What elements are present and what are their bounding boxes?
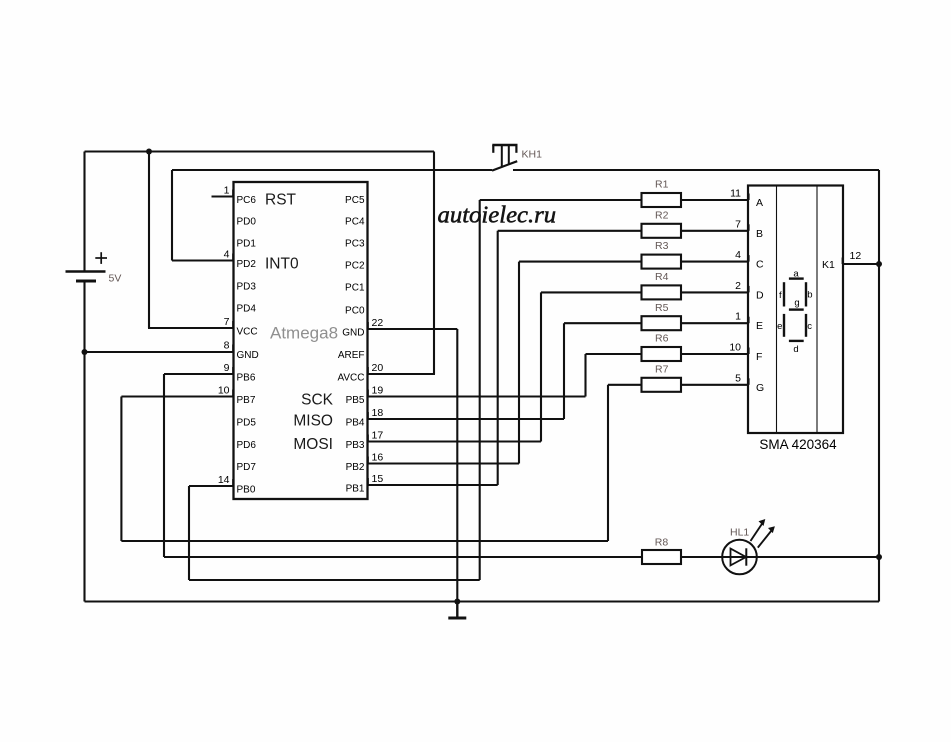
svg-text:PB3: PB3 [346, 440, 365, 451]
svg-text:PB6: PB6 [237, 372, 256, 383]
svg-text:B: B [756, 228, 763, 240]
IC U1 left pin PD7 [237, 462, 257, 473]
node pin12 junction [876, 261, 882, 267]
svg-text:16: 16 [372, 452, 384, 464]
svg-text:G: G [756, 382, 764, 394]
wire R7 to display pin 5 [681, 384, 748, 386]
svg-text:PC2: PC2 [345, 260, 365, 271]
svg-text:C: C [756, 259, 764, 271]
svg-text:K1: K1 [822, 259, 835, 271]
node +5V junction [146, 149, 152, 155]
svg-text:PC5: PC5 [345, 195, 365, 206]
resistor R2 [642, 209, 682, 237]
wire right vertical rail [878, 170, 880, 602]
wire PC6 pin 1 stub [212, 195, 234, 197]
svg-text:PD6: PD6 [237, 440, 257, 451]
svg-text:PD3: PD3 [237, 281, 257, 292]
resistor R6 [642, 333, 682, 361]
svg-text:PB2: PB2 [346, 462, 365, 473]
battery GB1 5V [66, 252, 122, 284]
svg-text:15: 15 [372, 473, 384, 485]
svg-text:R5: R5 [655, 302, 669, 314]
svg-text:PD2: PD2 [237, 259, 257, 270]
IC U1 right pin PC0 [345, 305, 365, 316]
wire R6 left lead [586, 353, 642, 355]
wire VCC drop [148, 152, 150, 329]
resistor R4 [642, 271, 682, 299]
IC U1 right pin AREF [338, 350, 365, 361]
IC U1 right pin PB2 [346, 452, 384, 473]
svg-text:KH1: KH1 [522, 149, 543, 161]
svg-text:R2: R2 [655, 209, 669, 221]
IC U1 right pin PC2 [345, 260, 365, 271]
svg-text:VCC: VCC [237, 326, 258, 337]
svg-text:R6: R6 [655, 333, 669, 345]
wire bottom ground rail [85, 600, 880, 602]
IC U1 right pin PB1 [346, 473, 384, 494]
svg-text:7: 7 [224, 316, 230, 328]
IC U1 right pin PB3 [346, 430, 384, 451]
wire PB2 pin16 right [368, 462, 520, 464]
svg-text:20: 20 [372, 362, 384, 374]
node GND pin8 junction [82, 349, 88, 355]
wire PB1 pin15 right [368, 484, 498, 486]
wire PB5 pin19 right [368, 395, 586, 397]
resistor R5 [642, 302, 682, 330]
svg-text:PC1: PC1 [345, 282, 365, 293]
svg-text:PD1: PD1 [237, 238, 257, 249]
IC U1 right pin AVCC [337, 362, 383, 383]
wire button to right rail [513, 169, 879, 171]
IC U1 right pin GND [342, 317, 383, 338]
svg-text:MISO: MISO [293, 413, 333, 430]
IC U1 right pin PB4 [346, 407, 384, 428]
svg-text:e: e [777, 321, 782, 332]
wire GND pin 8 to battery minus [85, 351, 234, 353]
svg-text:PB4: PB4 [346, 417, 365, 428]
wire battery plus up to rail [83, 152, 85, 271]
svg-text:c: c [807, 321, 812, 332]
svg-text:11: 11 [730, 188, 741, 200]
svg-text:PC4: PC4 [345, 216, 365, 227]
svg-text:GND: GND [237, 350, 259, 361]
wire VCC pin 7 [148, 327, 234, 329]
svg-text:RST: RST [265, 192, 297, 209]
IC U1 right pin PC1 [345, 282, 365, 293]
wire PB6 pin9 left [164, 373, 234, 375]
wire R3 left lead [519, 261, 642, 263]
wire PD2 up [171, 170, 173, 261]
svg-text:a: a [793, 269, 799, 280]
IC U1 left pin PD2 [224, 249, 257, 270]
button KH1 [492, 145, 542, 171]
wire AVCC pin 20 [368, 373, 436, 375]
IC U1 Atmega8 [234, 182, 368, 499]
svg-text:12: 12 [850, 250, 862, 262]
IC U1 right pin PC3 [345, 238, 365, 249]
wire R2 left lead [498, 230, 642, 232]
wire PD2 pin 4 [172, 259, 234, 261]
IC U1 left pin PD6 [237, 440, 257, 451]
wire R1 left lead [480, 199, 642, 201]
7-segment display K1 SMA 420364 [748, 186, 843, 453]
svg-text:PD0: PD0 [237, 216, 257, 227]
svg-text:f: f [779, 290, 782, 301]
svg-text:1: 1 [224, 185, 230, 197]
IC U1 left pin PD0 [237, 216, 257, 227]
wire R4 to display pin 2 [681, 291, 748, 293]
IC U1 left pin VCC [224, 316, 258, 337]
svg-text:SMA 420364: SMA 420364 [759, 437, 837, 452]
svg-text:E: E [756, 320, 763, 332]
svg-text:19: 19 [372, 385, 384, 397]
svg-text:AVCC: AVCC [337, 372, 364, 383]
IC U1 left pin GND [224, 340, 259, 361]
node LED cathode junction [876, 554, 882, 560]
svg-text:10: 10 [218, 385, 230, 397]
svg-text:R3: R3 [655, 240, 669, 252]
svg-text:A: A [756, 197, 763, 209]
svg-text:GND: GND [342, 327, 364, 338]
wire PB4 pin18 right [368, 418, 565, 420]
wire R2 to display pin 7 [681, 230, 748, 232]
svg-text:PD4: PD4 [237, 303, 257, 314]
svg-text:PB7: PB7 [237, 395, 256, 406]
svg-text:PC3: PC3 [345, 238, 365, 249]
svg-text:14: 14 [218, 474, 230, 486]
resistor R8 [642, 537, 681, 564]
svg-text:PB0: PB0 [237, 484, 256, 495]
wire GND pin 22 [368, 328, 458, 330]
svg-text:g: g [794, 297, 799, 308]
wire PB6 down [163, 374, 165, 557]
svg-text:MOSI: MOSI [293, 436, 333, 453]
svg-text:R4: R4 [655, 271, 669, 283]
svg-text:17: 17 [372, 430, 384, 442]
IC U1 left pin PD1 [237, 238, 257, 249]
wire R7 left lead [608, 384, 642, 386]
svg-text:b: b [807, 290, 812, 301]
svg-text:R8: R8 [655, 537, 669, 549]
svg-text:9: 9 [224, 362, 230, 374]
svg-text:PB1: PB1 [346, 483, 365, 494]
IC U1 right pin PC4 [345, 216, 365, 227]
IC U1 left pin PB0 [218, 474, 256, 495]
wire R6 to display pin 10 [681, 353, 748, 355]
svg-text:PC6: PC6 [237, 195, 257, 206]
svg-text:22: 22 [372, 317, 384, 329]
svg-text:F: F [756, 351, 762, 363]
wire PB7 pin10 route [121, 395, 233, 397]
svg-text:PC0: PC0 [345, 305, 365, 316]
svg-text:d: d [793, 344, 798, 355]
IC U1 right pin PB5 [346, 385, 384, 406]
svg-text:PB5: PB5 [346, 395, 365, 406]
resistor R3 [642, 240, 682, 268]
svg-text:INT0: INT0 [265, 256, 299, 273]
svg-text:R7: R7 [655, 363, 669, 375]
svg-text:AREF: AREF [338, 350, 365, 361]
wire R8 to LED and right rail [681, 556, 879, 558]
resistor R1 [642, 179, 682, 207]
wire GND pin 22 drop to ground rail [456, 329, 458, 602]
IC U1 left pin PD5 [237, 417, 257, 428]
svg-text:1: 1 [735, 311, 741, 323]
wire R5 to display pin 1 [681, 322, 748, 324]
wire +5V drop to AVCC [433, 152, 435, 375]
LED HL1 [722, 519, 775, 574]
IC U1 left pin PC6 [224, 185, 257, 206]
display segment glyph [777, 269, 812, 355]
svg-text:18: 18 [372, 407, 384, 419]
svg-text:8: 8 [224, 340, 230, 352]
wire display pin 12 K1 [843, 263, 879, 265]
svg-text:10: 10 [729, 342, 741, 354]
svg-text:Atmega8: Atmega8 [270, 323, 338, 342]
IC U1 left pin PD4 [237, 303, 257, 314]
svg-text:2: 2 [735, 280, 741, 292]
wire R5 left lead [564, 322, 642, 324]
svg-text:4: 4 [735, 249, 741, 261]
svg-text:5: 5 [735, 372, 741, 384]
wire R1 to display pin 11 [681, 199, 748, 201]
node ground junction [454, 599, 460, 605]
svg-text:7: 7 [735, 218, 741, 230]
IC U1 right pin PC5 [345, 195, 365, 206]
resistor R7 [642, 363, 682, 391]
svg-text:PD5: PD5 [237, 417, 257, 428]
svg-text:4: 4 [224, 249, 230, 261]
svg-text:HL1: HL1 [730, 527, 749, 539]
IC U1 left pin PD3 [237, 281, 257, 292]
IC U1 left pin PB6 [224, 362, 256, 383]
svg-text:SCK: SCK [301, 392, 334, 409]
IC U1 left pin PB7 [218, 385, 256, 406]
wire PD2 line to button [172, 169, 492, 171]
wire PB0 pin14 left [189, 485, 234, 487]
wire battery minus down left side [83, 281, 85, 602]
wire R4 left lead [541, 291, 642, 293]
wire PB6 to R8 [164, 556, 642, 558]
svg-text:autoielec.ru: autoielec.ru [438, 202, 557, 229]
wire PB3 pin17 right [368, 440, 542, 442]
svg-text:D: D [756, 289, 764, 301]
svg-text:R1: R1 [655, 179, 669, 191]
wire +5V rail from battery plus to top-right corner [85, 150, 435, 152]
wire R3 to display pin 4 [681, 261, 748, 263]
svg-text:5V: 5V [109, 273, 122, 285]
ground [448, 602, 466, 619]
svg-text:PD7: PD7 [237, 462, 257, 473]
